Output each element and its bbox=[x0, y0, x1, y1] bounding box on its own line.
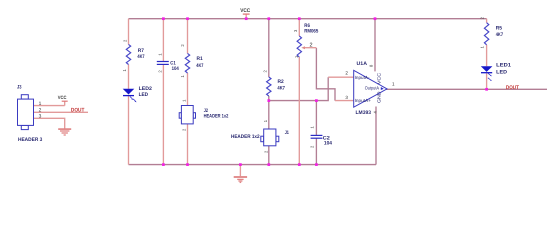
svg-text:R2: R2 bbox=[278, 79, 284, 85]
svg-text:R1: R1 bbox=[197, 56, 203, 62]
svg-text:2: 2 bbox=[39, 107, 42, 113]
svg-text:VCC: VCC bbox=[377, 72, 382, 84]
svg-text:J1: J1 bbox=[285, 130, 289, 136]
svg-text:4K7: 4K7 bbox=[137, 54, 144, 60]
svg-text:LED: LED bbox=[496, 69, 507, 75]
svg-text:2: 2 bbox=[310, 42, 313, 48]
svg-text:1: 1 bbox=[392, 82, 395, 87]
svg-text:R5: R5 bbox=[496, 26, 502, 32]
svg-text:OutputA: OutputA bbox=[365, 86, 379, 91]
svg-text:GND: GND bbox=[377, 91, 382, 103]
svg-text:3: 3 bbox=[39, 114, 42, 120]
svg-text:InputA-: InputA- bbox=[355, 75, 370, 80]
svg-text:J3: J3 bbox=[17, 85, 22, 91]
svg-text:HEADER 1x2: HEADER 1x2 bbox=[204, 114, 229, 120]
svg-text:LED1: LED1 bbox=[496, 63, 511, 69]
svg-text:2: 2 bbox=[345, 71, 348, 76]
svg-text:HEADER 3: HEADER 3 bbox=[18, 137, 42, 143]
svg-text:U1A: U1A bbox=[357, 61, 368, 67]
svg-text:3: 3 bbox=[345, 95, 348, 100]
svg-text:VCC: VCC bbox=[58, 95, 67, 101]
svg-text:InputA+: InputA+ bbox=[355, 98, 372, 103]
svg-text:4K7: 4K7 bbox=[496, 32, 504, 38]
svg-text:104: 104 bbox=[324, 141, 332, 147]
svg-text:4K7: 4K7 bbox=[196, 63, 203, 69]
svg-text:HEADER 1x2: HEADER 1x2 bbox=[231, 134, 260, 140]
svg-text:1: 1 bbox=[39, 101, 42, 107]
svg-text:DOUT: DOUT bbox=[71, 108, 85, 114]
svg-text:104: 104 bbox=[172, 66, 179, 72]
svg-text:DOUT: DOUT bbox=[506, 85, 520, 91]
svg-text:RM065: RM065 bbox=[304, 29, 318, 35]
svg-text:LED: LED bbox=[139, 92, 149, 98]
svg-text:LM393: LM393 bbox=[356, 110, 372, 116]
svg-text:2: 2 bbox=[122, 39, 127, 42]
svg-text:VCC: VCC bbox=[240, 8, 250, 14]
svg-text:4K7: 4K7 bbox=[277, 85, 285, 91]
